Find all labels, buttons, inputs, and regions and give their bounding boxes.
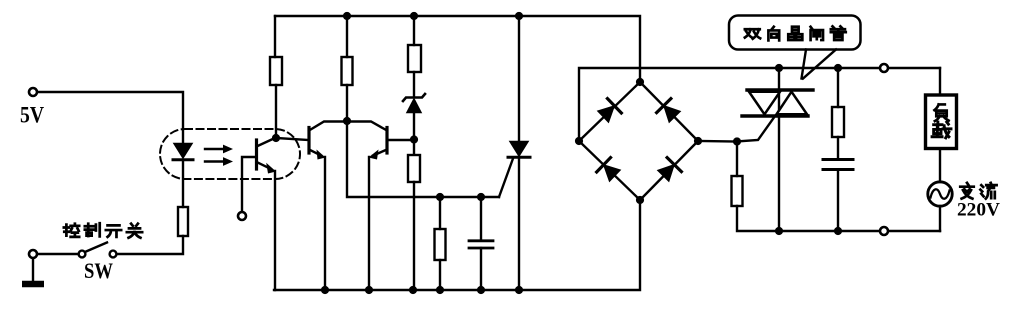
wire Q3 base link bbox=[387, 139, 414, 141]
wire bbox=[117, 236, 184, 254]
node bridge left bbox=[575, 137, 583, 145]
diode VD1 top-left bbox=[596, 99, 621, 124]
phototransistor Q1 bbox=[257, 138, 277, 174]
wire bbox=[837, 137, 839, 159]
wire bbox=[736, 142, 738, 177]
node E bbox=[477, 193, 485, 201]
node D bbox=[436, 193, 444, 201]
capacitor C2 bbox=[823, 160, 853, 170]
wire bbox=[275, 85, 277, 135]
resistor R2 bbox=[270, 57, 282, 85]
wire bbox=[274, 16, 276, 57]
wire triac gate bbox=[737, 116, 775, 142]
wire bbox=[413, 72, 415, 97]
AC source 220V bbox=[928, 182, 952, 206]
node rail dot 3 bbox=[515, 12, 523, 20]
node bridge right bbox=[694, 137, 702, 145]
resistor R4 bbox=[408, 45, 421, 72]
label 交流 (drawn glyphs) placeholder bbox=[960, 183, 996, 199]
optocoupler light arrow 2 bbox=[205, 157, 233, 166]
wire bbox=[939, 149, 941, 183]
node dots bottom rail bbox=[321, 286, 523, 294]
wire bbox=[837, 170, 839, 232]
label 控制开关 (drawn glyphs) placeholder bbox=[64, 223, 142, 237]
wire Q1 emitter down bbox=[274, 171, 276, 290]
optocoupler light arrow 1 bbox=[205, 145, 233, 154]
wire SCR gate ramp bbox=[499, 159, 513, 198]
node C zener bbox=[410, 135, 418, 143]
resistor R3 bbox=[342, 57, 353, 85]
transistor Q2 bbox=[309, 122, 346, 160]
node left terminal bbox=[29, 250, 37, 258]
wire top rail bbox=[275, 16, 640, 82]
wire bbox=[737, 206, 940, 231]
node AC terminal top bbox=[880, 64, 888, 72]
wire Q3 emitter down bbox=[368, 157, 370, 290]
wire bbox=[439, 197, 441, 229]
node B collectors bbox=[343, 117, 351, 125]
diode VD3 bottom-left bbox=[597, 158, 622, 183]
node bridge bottom bbox=[636, 196, 644, 204]
wire bbox=[413, 113, 415, 137]
bridge rectifier arms bbox=[579, 82, 698, 200]
resistor R8 bbox=[832, 107, 844, 137]
node bridge top bbox=[636, 78, 644, 86]
wire bbox=[346, 16, 348, 57]
wire bbox=[32, 258, 34, 281]
svg-text:5V: 5V bbox=[20, 103, 44, 129]
diode VD2 top-right bbox=[657, 99, 682, 124]
svg-text:SW: SW bbox=[84, 258, 113, 283]
wire bbox=[37, 253, 79, 255]
load box 负载 bbox=[926, 95, 957, 149]
wire bbox=[518, 157, 520, 290]
wire bbox=[413, 140, 415, 155]
wire bbox=[413, 16, 415, 45]
svg-text:220V: 220V bbox=[957, 201, 1001, 221]
wire bbox=[413, 182, 415, 290]
wire Q1 base lead bbox=[242, 157, 257, 212]
wire bbox=[518, 16, 520, 142]
capacitor C1 bbox=[469, 241, 493, 248]
thyristor VS bbox=[508, 142, 530, 158]
callout box 双向晶闸管 bbox=[729, 16, 861, 79]
node snubber bottom bbox=[834, 227, 842, 235]
resistor R1 (LED series) bbox=[178, 207, 188, 236]
label 双向晶闸管 (drawn glyphs) placeholder bbox=[745, 26, 846, 40]
resistor R7 bbox=[732, 176, 743, 206]
diode VD4 bottom-right bbox=[656, 158, 681, 183]
ground bbox=[22, 281, 44, 288]
node base terminal bbox=[238, 212, 246, 220]
wire bbox=[439, 260, 441, 290]
resistor R5 bbox=[408, 155, 420, 182]
resistor R6 bbox=[435, 229, 446, 260]
wire bridge left to AC line bbox=[579, 68, 940, 141]
node A bbox=[272, 134, 280, 142]
node snubber top bbox=[834, 64, 842, 72]
wire bbox=[346, 85, 348, 121]
wire bbox=[480, 197, 482, 240]
wire bbox=[480, 248, 482, 290]
node AC terminal bottom bbox=[880, 227, 888, 235]
wire base link bbox=[276, 138, 308, 140]
triac VT bbox=[742, 68, 813, 231]
LED D1 (optocoupler emitter) bbox=[173, 144, 193, 160]
node triac bottom bbox=[775, 227, 783, 235]
node rail dot 1 bbox=[343, 12, 351, 20]
node 5V terminal bbox=[29, 88, 37, 96]
label 负载 (drawn glyphs) placeholder bbox=[932, 104, 951, 137]
switch SW bbox=[79, 243, 117, 258]
wire collector node down and to SCR gate bbox=[347, 121, 499, 197]
wire bridge right to gate node bbox=[698, 140, 737, 143]
node rail dot 2 bbox=[410, 12, 418, 20]
node gate bbox=[733, 137, 741, 145]
transistor Q3 bbox=[348, 122, 387, 160]
wire bbox=[939, 68, 941, 95]
wire bbox=[837, 68, 839, 107]
wire bottom rail bbox=[274, 200, 640, 290]
wire bbox=[182, 160, 184, 207]
optocoupler U1 dashed outline bbox=[160, 129, 300, 179]
wire bbox=[37, 92, 183, 143]
wire Q2 emitter down bbox=[324, 157, 326, 290]
zener diode VD bbox=[403, 94, 425, 113]
wire bbox=[939, 206, 941, 231]
node triac top bbox=[775, 64, 783, 72]
